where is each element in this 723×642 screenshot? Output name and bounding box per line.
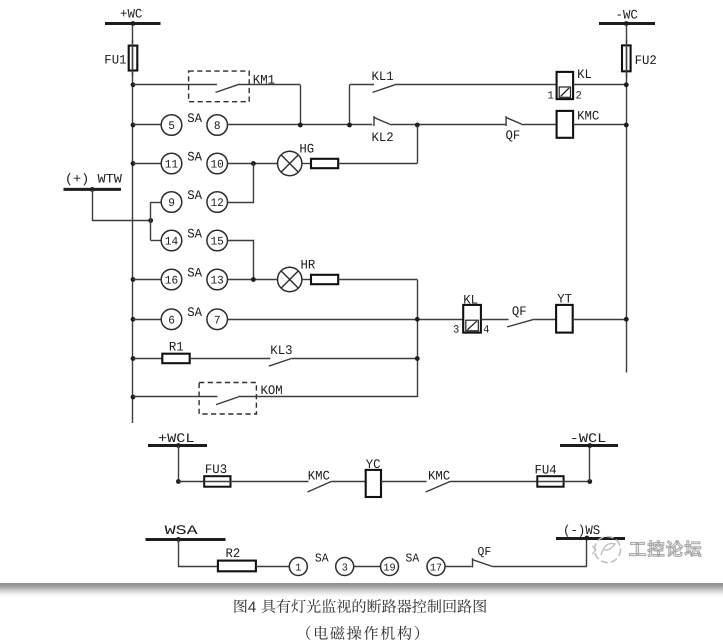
relay contact KL2 [374, 116, 392, 126]
wire WTW bracket [150, 202, 152, 241]
node row-F return junction [415, 317, 420, 322]
wire 17 to QF [445, 566, 472, 568]
terminal 13 of SA [207, 269, 228, 290]
bus (-)WS [556, 523, 625, 539]
wire row-B to node [228, 163, 278, 165]
wire FU3 to KMC1 [231, 481, 309, 483]
wire row-A stub [133, 124, 161, 126]
node KM1 branch [131, 82, 136, 87]
wire row-G stub [133, 358, 162, 360]
wire KM1 right [237, 84, 300, 86]
terminal 10 of SA [207, 153, 228, 174]
node row-B left [131, 161, 136, 166]
node WTW bus junction [90, 187, 95, 192]
terminal 3 of SA [336, 558, 354, 576]
wire row-H right [238, 396, 417, 398]
wire KL to -WC [573, 84, 626, 86]
wire row-E stub [133, 279, 161, 281]
contactor contact KMC right [426, 482, 451, 493]
wire row-A to KMC [524, 124, 557, 126]
wire HR resistor out [338, 279, 417, 281]
wire HG resistor out [338, 163, 417, 165]
wire KL3 right [291, 358, 417, 360]
relay coil KL pins 1-2 [557, 72, 574, 99]
wire KL1 right [395, 84, 557, 86]
wire row-F stub [133, 319, 161, 321]
wire WSA feeder [179, 539, 218, 566]
terminal 17 of SA [427, 558, 445, 576]
terminal 12 of SA [207, 192, 228, 213]
terminal 19 of SA [381, 558, 399, 576]
node +WC junction [131, 21, 136, 26]
node row-A left [131, 123, 136, 128]
relay coil KL pins 3-4 [463, 305, 481, 333]
bus +WC [105, 7, 161, 24]
watermark text 工控论坛 [630, 541, 702, 557]
contactor contact KOM dashed enclosure [199, 383, 256, 415]
wire HR return dropper [417, 280, 419, 398]
lamp HR [278, 267, 302, 291]
wire 12 riser [228, 164, 254, 203]
bus WSA [146, 523, 226, 540]
wire main bus vertical [132, 25, 134, 423]
contactor contact KM1 dashed enclosure [189, 71, 250, 102]
wire 14 stub [151, 240, 162, 242]
node WS junction [585, 536, 590, 541]
terminal 7 of SA [207, 309, 228, 330]
node row-F left [131, 317, 136, 322]
wire QF to WS [492, 566, 587, 568]
closing coil YC [366, 470, 381, 497]
wire 15 dropper [228, 241, 254, 280]
terminal 5 of SA [161, 115, 182, 136]
wire 3 to 19 [354, 566, 381, 568]
wire KMC to -WC [573, 124, 626, 126]
breaker aux contact QF bottom [473, 558, 493, 567]
node FU3 feed [176, 479, 181, 484]
wire row-F long [228, 319, 464, 321]
node row-E left [131, 277, 136, 282]
contact KOM blade [216, 397, 238, 405]
breaker aux contact QF row-F [507, 319, 534, 327]
node 13-15 junction [251, 277, 256, 282]
node FU4 out [587, 479, 592, 484]
wire KM1 drop [300, 85, 302, 125]
terminal 6 of SA [161, 309, 182, 330]
node KM1-rowA junction [298, 123, 303, 128]
relay contact KL1 [373, 85, 395, 93]
wire -WCL drop [589, 446, 591, 482]
contactor contact KMC left [308, 482, 332, 493]
node +WCL junction [176, 443, 181, 448]
wire KL1 riser [349, 85, 351, 125]
wire WS drop [586, 538, 588, 567]
wire KMC2 to FU4 [450, 481, 537, 483]
terminal 11 of SA [161, 153, 182, 174]
node 10-12 junction [251, 161, 256, 166]
wire QF to YT [534, 319, 556, 321]
terminal 14 of SA [161, 230, 182, 251]
contact KM1 blade [216, 85, 238, 93]
terminal 16 of SA [161, 269, 182, 290]
breaker aux contact QF row-A [506, 116, 523, 126]
node YT -WC junction [624, 317, 629, 322]
wire HG return riser [417, 125, 419, 164]
node KMC -WC junction [624, 123, 629, 128]
wire YT to -WC [573, 319, 627, 321]
lamp HG [278, 151, 302, 175]
wire row-A mid [228, 124, 373, 126]
contactor coil KMC [557, 111, 574, 138]
wire right bus vertical [626, 25, 628, 373]
bus -WC [599, 8, 655, 24]
wire KL4 to QF [481, 319, 509, 321]
wire +WCL drop [178, 446, 180, 482]
node KL3 return junction [415, 356, 420, 361]
node -WC junction [624, 21, 629, 26]
separator bar [0, 583, 723, 598]
wire KM1 left [133, 84, 217, 86]
wire KMC1 to YC [331, 481, 366, 483]
node row-G left [131, 356, 136, 361]
node WSA junction [176, 537, 181, 542]
wire R1 to KL3 [190, 358, 271, 360]
fuse FU3 [204, 476, 230, 487]
wire HR to resistor [302, 279, 311, 281]
terminal 8 of SA [207, 115, 228, 136]
wire row-H left [133, 396, 217, 398]
wire row-E to lamp [228, 279, 278, 281]
fuse FU2 [622, 39, 631, 77]
terminal 9 of SA [161, 192, 182, 213]
wire 9-12 branch [151, 202, 162, 204]
bus (+)WTW [64, 188, 122, 191]
node HG return junction [415, 123, 420, 128]
wire HG to resistor [302, 163, 311, 165]
wire row-B stub [133, 163, 161, 165]
resistor R1 [162, 354, 189, 364]
wire FU4 to -WCL [564, 481, 590, 483]
resistor R2 [218, 561, 256, 572]
resistor HG series [311, 159, 338, 168]
svg-text:4: 4 [248, 599, 256, 616]
wire row-A after KL2 [392, 124, 507, 126]
wire YC to KMC2 [381, 481, 427, 483]
fuse FU4 [537, 476, 563, 487]
wire to FU3 [178, 481, 204, 483]
caption line 2 [306, 626, 419, 640]
terminal 1 of SA [289, 558, 307, 576]
trip coil YT [556, 305, 573, 333]
bus +WCL [148, 431, 207, 446]
node KL -WC junction [624, 82, 629, 87]
terminal 15 of SA [207, 230, 228, 251]
wire KL1 left [350, 84, 375, 86]
watermark logo [592, 537, 621, 563]
node WTW branch junction [148, 218, 153, 223]
fuse FU1 [129, 40, 138, 77]
caption line 1 [234, 599, 486, 616]
node row-H left [131, 395, 136, 400]
node KL1-rowA junction [347, 123, 352, 128]
wire R2 to 1 [256, 566, 289, 568]
node -WCL junction [587, 443, 592, 448]
wire WTW feeder [93, 189, 151, 220]
bus -WCL [560, 431, 618, 446]
relay contact KL3 [269, 359, 292, 367]
resistor HR series [311, 275, 338, 284]
